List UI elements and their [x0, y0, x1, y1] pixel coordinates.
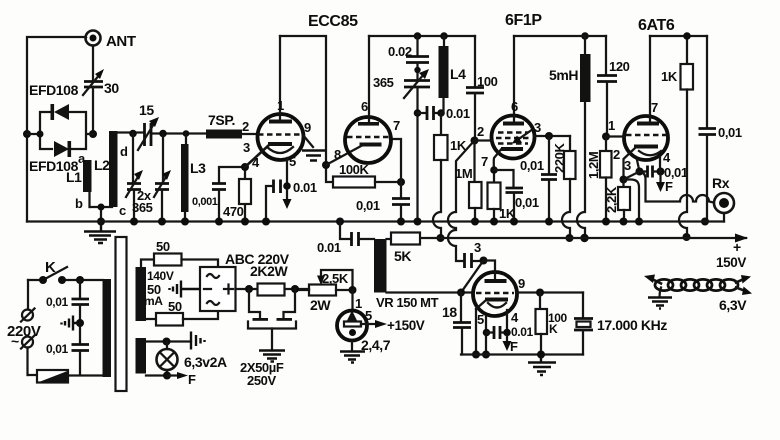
- svg-text:VR 150 MT: VR 150 MT: [376, 295, 439, 310]
- svg-text:K: K: [45, 259, 56, 276]
- capacitor 0.01 tube1 cathode: [266, 158, 317, 222]
- arrow heater tube1: [283, 190, 292, 209]
- node L4 bottom: [437, 109, 445, 117]
- svg-text:0,01: 0,01: [356, 198, 380, 213]
- wire trimmer to node: [92, 87, 94, 134]
- coil L4: [439, 36, 467, 113]
- svg-text:0.01: 0.01: [317, 240, 341, 255]
- svg-text:9: 9: [304, 120, 311, 135]
- crystal 17.000 KHz: [574, 293, 667, 355]
- wire antenna loop left: [27, 37, 86, 222]
- variable capacitor 2x365 b: [132, 134, 171, 222]
- plug 220V: [7, 280, 41, 375]
- svg-text:L1: L1: [66, 169, 82, 185]
- svg-text:1K: 1K: [661, 69, 678, 84]
- tube VR150MT regulator: [337, 290, 367, 341]
- node 0.02 top: [414, 32, 422, 40]
- svg-text:50: 50: [156, 239, 170, 254]
- pin 3 wire: [534, 120, 570, 140]
- svg-text:365: 365: [132, 200, 153, 215]
- transformer secondary HV: [136, 267, 147, 321]
- ground bottom tube: [528, 355, 556, 376]
- capacitor 0,01 plate 6F1P: [520, 136, 557, 222]
- wire node to tube top: [484, 261, 496, 273]
- svg-text:0.01: 0.01: [511, 325, 533, 339]
- svg-text:250V: 250V: [247, 373, 276, 388]
- node plus 2: [291, 285, 299, 293]
- svg-text:120: 120: [609, 59, 630, 74]
- node 100K top: [536, 289, 544, 297]
- node diode box left: [37, 131, 44, 138]
- resistor 100K: [333, 162, 401, 188]
- resistor 100K bottom: [536, 293, 568, 355]
- node psu caps top: [76, 276, 84, 284]
- node 220K +150 rail: [566, 234, 574, 242]
- wire bridge plus out: [236, 288, 310, 290]
- svg-text:L4: L4: [450, 66, 466, 82]
- svg-text:4: 4: [663, 150, 671, 165]
- pin 1 wire 6AT6: [606, 118, 624, 137]
- resistor 220K: [552, 136, 576, 238]
- svg-text:d: d: [120, 144, 128, 159]
- svg-text:17.000 KHz: 17.000 KHz: [597, 317, 667, 333]
- node left rail: [23, 130, 31, 138]
- switch K: [28, 259, 103, 284]
- svg-text:EFD108: EFD108: [29, 82, 79, 98]
- svg-text:6: 6: [361, 99, 368, 114]
- wire pin2 pin3 diagonal: [624, 172, 640, 180]
- node grid bottom tube: [457, 289, 465, 297]
- fuse: [28, 370, 103, 383]
- capacitor 0.01 psu rail: [317, 222, 374, 256]
- trimmer capacitor 30: [83, 69, 119, 96]
- svg-text:1,2M: 1,2M: [586, 152, 601, 179]
- svg-text:L2: L2: [94, 157, 110, 173]
- node 365b top: [159, 130, 167, 138]
- svg-text:140V: 140V: [147, 269, 174, 283]
- svg-text:2,5K: 2,5K: [322, 271, 349, 286]
- node pin4 6AT6: [657, 168, 665, 176]
- wire audio out to Rx: [640, 172, 714, 203]
- transformer secondary heater: [136, 338, 147, 374]
- variable capacitor 2x365 a: [126, 134, 143, 222]
- node pin1 6AT6: [602, 133, 610, 141]
- node cathode tube1: [241, 163, 249, 171]
- wire oscillator top rail: [369, 35, 475, 37]
- tube 6F1P: [492, 36, 535, 159]
- resistor 50 top: [141, 239, 218, 267]
- pin9 shield wire: [303, 135, 313, 147]
- resistor 1K oscillator: [434, 113, 467, 160]
- rectifier bridge: [200, 267, 236, 311]
- wire grid2 diagonal pin8: [326, 146, 361, 165]
- node grid cap left: [414, 109, 422, 117]
- svg-text:a: a: [78, 151, 86, 166]
- svg-text:2: 2: [613, 147, 620, 162]
- svg-text:Rx: Rx: [712, 175, 730, 191]
- chassis ground psu mid: [62, 316, 81, 331]
- pin labels tube1: [242, 98, 311, 170]
- pin 9 wire bottom tube: [517, 276, 583, 293]
- svg-text:2,4,7: 2,4,7: [361, 337, 391, 353]
- node 1K +150 rail: [683, 233, 691, 241]
- tube output pentode: [473, 272, 517, 316]
- pin 7 cathode wire: [481, 150, 501, 183]
- svg-text:ANT: ANT: [106, 33, 136, 50]
- pin 3 wire 6AT6: [624, 158, 640, 173]
- node psu caps mid: [76, 319, 84, 327]
- svg-text:30: 30: [104, 80, 119, 96]
- node L2 ground rail: [97, 218, 105, 226]
- resistor 1K cathode 6F1P: [488, 183, 516, 222]
- svg-text:7: 7: [393, 118, 400, 133]
- svg-text:3: 3: [534, 120, 541, 135]
- svg-text:~: ~: [11, 333, 19, 349]
- svg-text:3: 3: [474, 240, 481, 255]
- heater twisted pair 6,3V: [644, 275, 752, 314]
- svg-text:5: 5: [477, 312, 484, 327]
- svg-text:5: 5: [289, 154, 296, 169]
- capacitor 100: [466, 36, 498, 140]
- terminal ANT: [86, 31, 136, 51]
- inductor 7SP: [206, 112, 257, 139]
- svg-text:5K: 5K: [394, 248, 411, 264]
- tube 6AT6: [624, 36, 668, 160]
- ground pin9: [302, 151, 325, 161]
- nodes main rail: [130, 218, 643, 226]
- resistor 5K: [387, 233, 421, 265]
- coil L2: [90, 131, 128, 222]
- svg-text:0,01: 0,01: [46, 342, 68, 356]
- svg-text:K: K: [549, 322, 558, 336]
- node grid 6F1P: [471, 137, 479, 145]
- wire VR pin5 +150V arrow: [361, 308, 425, 333]
- ground main rail: [84, 222, 116, 244]
- svg-text:1: 1: [608, 118, 615, 133]
- wire ANT down: [92, 46, 94, 82]
- svg-text:6AT6: 6AT6: [638, 17, 675, 34]
- wire tuned bus: [113, 133, 206, 134]
- capacitor 0.01 bottom tube: [487, 325, 534, 339]
- svg-text:ECC85: ECC85: [308, 13, 358, 30]
- node grid cap bottom tube: [480, 257, 488, 265]
- svg-text:50: 50: [168, 299, 182, 314]
- wire pin3 cathode diagonal: [245, 145, 269, 167]
- svg-text:L3: L3: [190, 160, 206, 176]
- svg-text:0.01: 0.01: [293, 180, 317, 195]
- wire node diagonal to grid line: [461, 261, 484, 293]
- svg-text:+: +: [733, 239, 741, 255]
- svg-text:+150V: +150V: [387, 318, 425, 333]
- node 365a top: [129, 130, 137, 138]
- wire bottom return: [461, 353, 583, 355]
- wire grid line bottom tube: [387, 291, 474, 293]
- arrow heater F bottom tube: [503, 336, 519, 354]
- pin 2 wire: [475, 124, 493, 141]
- svg-text:0,001: 0,001: [192, 196, 218, 208]
- pin 4 wire 6AT6: [660, 150, 671, 172]
- node pin7 tube2: [397, 178, 405, 186]
- electrolytic capacitors 2x50uF: [240, 289, 296, 388]
- capacitor 0,001: [192, 167, 245, 222]
- node pot wiper: [349, 286, 357, 294]
- wire 365 down to rail: [416, 88, 418, 222]
- node grid2: [322, 161, 330, 169]
- diode EFD108 bottom: [29, 141, 79, 174]
- capacitor 0.02: [388, 36, 429, 80]
- svg-text:0.02: 0.02: [388, 44, 412, 59]
- labels transformer: [144, 269, 174, 308]
- choke 5mH: [549, 32, 591, 238]
- resistor 1K 6AT6 plate: [661, 36, 693, 237]
- svg-text:220K: 220K: [552, 143, 567, 173]
- pin 4 wire bottom tube: [503, 310, 519, 336]
- node ground bottom: [537, 351, 545, 359]
- choke bar VR: [374, 239, 387, 293]
- transformer primary: [103, 279, 112, 377]
- svg-text:2: 2: [242, 119, 249, 134]
- node L3 top: [183, 130, 190, 137]
- svg-text:18: 18: [442, 304, 457, 320]
- svg-text:1M: 1M: [455, 166, 472, 181]
- svg-text:5: 5: [365, 308, 372, 323]
- terminal Rx: [712, 175, 734, 222]
- capacitor 18: [442, 293, 471, 355]
- resistor 2,2K: [604, 180, 630, 222]
- svg-text:F: F: [665, 179, 673, 194]
- diode EFD108 top: [29, 82, 79, 120]
- arrow heater F 6AT6: [656, 175, 673, 194]
- node plus 1: [245, 285, 253, 293]
- wire +150V rail: [420, 237, 746, 239]
- nodes bottom wire: [472, 329, 490, 359]
- resistor 2K: [225, 251, 290, 296]
- svg-text:6,3V: 6,3V: [719, 297, 747, 313]
- svg-text:F: F: [510, 339, 518, 354]
- node 1K on +150 rail: [437, 234, 445, 242]
- svg-text:4: 4: [511, 310, 519, 325]
- svg-text:2: 2: [477, 124, 484, 139]
- svg-text:0,01: 0,01: [515, 195, 539, 210]
- svg-text:0,01: 0,01: [46, 295, 68, 309]
- wire 1K down hop to +150 rail: [433, 160, 441, 238]
- pin 2 wire 6AT6: [613, 147, 635, 180]
- node L4 top: [440, 32, 448, 40]
- node diode box right: [89, 130, 97, 138]
- svg-text:100: 100: [477, 74, 498, 89]
- svg-text:0,01: 0,01: [520, 158, 544, 173]
- wire pin7 tube2: [390, 139, 401, 182]
- node 1K top: [683, 32, 691, 40]
- resistor 50 bottom: [146, 299, 218, 326]
- resistor 470: [223, 167, 251, 222]
- capacitor grid pin3 bottom tube: [465, 240, 484, 268]
- svg-text:8: 8: [334, 147, 341, 162]
- svg-text:7: 7: [481, 154, 488, 169]
- svg-text:F: F: [188, 372, 196, 387]
- svg-text:365: 365: [373, 75, 394, 90]
- variable capacitor 365 oscillator: [373, 69, 430, 98]
- pin 5 wires bottom tube: [476, 301, 486, 355]
- wire main bus rail: [27, 220, 724, 222]
- wire VR cathode ground: [340, 337, 391, 363]
- svg-text:mA: mA: [144, 294, 163, 308]
- arrow +150V rail end: [716, 234, 748, 271]
- svg-text:0,01: 0,01: [718, 125, 742, 140]
- svg-text:2,2K: 2,2K: [604, 186, 619, 213]
- svg-text:c: c: [119, 203, 126, 218]
- wire grid coupling down hops: [448, 141, 475, 262]
- wire plate1 to grid2 top: [280, 36, 333, 182]
- svg-text:2K2W: 2K2W: [250, 263, 288, 279]
- resistor 1,2M: [586, 137, 612, 222]
- svg-text:0,01: 0,01: [664, 165, 688, 180]
- wire top rail 6AT6: [650, 35, 707, 37]
- wire diode bridge frame: [27, 112, 93, 149]
- trimmer capacitor 15: [138, 102, 159, 150]
- coil L3: [181, 134, 206, 222]
- svg-text:3: 3: [624, 158, 631, 173]
- transformer core: [116, 237, 127, 391]
- tube ECC85 triode b: [345, 36, 400, 163]
- capacitor 120: [597, 36, 630, 137]
- chassis ground bridge minus: [170, 281, 201, 298]
- wire cathode to rail: [624, 180, 640, 222]
- svg-text:3: 3: [243, 140, 250, 155]
- capacitor 0,01 output: [699, 36, 742, 222]
- wire top rail 6F1P: [514, 35, 606, 37]
- svg-text:1: 1: [277, 98, 284, 113]
- resistor 1M: [455, 141, 482, 222]
- capacitor 0,01 psu top: [46, 280, 89, 344]
- svg-text:15: 15: [139, 102, 154, 118]
- svg-text:9: 9: [518, 276, 525, 291]
- capacitor 0,01 6AT6 cathode: [640, 165, 688, 180]
- svg-text:2W: 2W: [310, 297, 331, 313]
- node pin3 6AT6: [636, 168, 644, 176]
- capacitor 0,01 cathode 6F1P: [494, 170, 539, 222]
- svg-text:7: 7: [651, 100, 658, 115]
- capacitor 0.01 oscillator grid: [418, 106, 470, 121]
- svg-text:6F1P: 6F1P: [505, 12, 542, 29]
- potentiometer 2,5K: [295, 270, 353, 313]
- svg-text:7SP.: 7SP.: [208, 112, 235, 128]
- svg-text:1: 1: [355, 296, 362, 311]
- svg-text:b: b: [75, 196, 83, 211]
- svg-text:0.01: 0.01: [446, 106, 470, 121]
- svg-text:470: 470: [223, 204, 244, 219]
- svg-text:5mH: 5mH: [549, 67, 578, 83]
- node 5mH +150 rail: [580, 234, 588, 242]
- capacitor 0,01 tube2 cathode: [356, 182, 410, 222]
- tube ECC85 triode a: [258, 36, 304, 160]
- svg-text:150V: 150V: [716, 255, 746, 270]
- node +150 rail 5K junction: [437, 237, 439, 239]
- lamp 6,3v 2A: [146, 332, 227, 388]
- node output cap rail: [701, 218, 709, 226]
- capacitor 0,01 psu bottom: [46, 342, 89, 375]
- svg-text:6,3v2A: 6,3v2A: [184, 354, 227, 370]
- svg-text:6: 6: [511, 99, 518, 114]
- node pin2 6AT6: [620, 176, 628, 184]
- coil L1: [66, 151, 92, 211]
